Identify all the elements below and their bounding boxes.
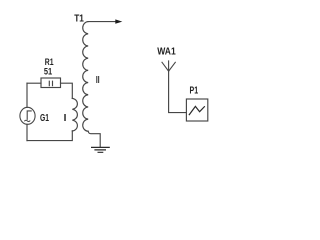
generator G1 circle bbox=[20, 107, 35, 124]
svg-text:G1: G1 bbox=[40, 113, 49, 124]
generator G1 pulse symbol bbox=[27, 111, 31, 119]
generator G1 tilde bbox=[25, 120, 30, 121]
wire secondary bottom to ground bbox=[88, 131, 100, 146]
resistor R1 body bbox=[41, 78, 61, 88]
wire left side below G1 bbox=[26, 124, 28, 140]
svg-text:T1: T1 bbox=[74, 13, 84, 24]
wire resistor to transformer primary bbox=[61, 83, 73, 98]
svg-text:P1: P1 bbox=[190, 85, 199, 96]
receiver P1 waveform symbol bbox=[189, 106, 204, 114]
svg-text:WA1: WA1 bbox=[157, 47, 176, 58]
wire left side above G1 bbox=[26, 83, 28, 107]
wire primary bottom bbox=[27, 131, 72, 141]
svg-text:II: II bbox=[96, 75, 100, 86]
wire output arrow line bbox=[88, 21, 116, 23]
arrowhead of output bbox=[115, 19, 122, 23]
wire top left loop bbox=[27, 82, 41, 84]
ground symbol bbox=[92, 147, 110, 152]
antenna WA1 symbol bbox=[162, 61, 175, 71]
resistor R1 power-rating bars bbox=[49, 81, 52, 86]
transformer T secondary winding II bbox=[83, 22, 88, 132]
receiver P1 box bbox=[186, 99, 207, 121]
wire antenna to P1 bbox=[169, 71, 187, 112]
svg-text:51: 51 bbox=[44, 67, 53, 78]
svg-text:I: I bbox=[64, 113, 67, 124]
transformer T primary winding I bbox=[72, 98, 77, 131]
